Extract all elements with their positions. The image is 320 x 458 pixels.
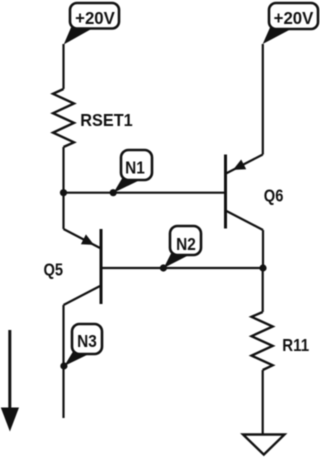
junction: N2/R11 junction dot — [259, 264, 266, 271]
wire: Q5 base to N2 net — [101, 267, 263, 269]
node N2 — [160, 226, 201, 272]
wire: Q5 emitter vertical — [62, 193, 64, 229]
svg-text:+20V: +20V — [274, 8, 314, 28]
svg-text:N3: N3 — [77, 332, 97, 351]
wire: Q5 collector down through N3 — [62, 305, 64, 418]
svg-text:Q5: Q5 — [43, 261, 63, 280]
svg-text:N2: N2 — [176, 235, 196, 254]
wire: +20V to RSET1 top (left branch) — [62, 44, 64, 89]
wire: +20V to Q6 emitter — [262, 44, 264, 155]
power flag +20V (right) — [263, 3, 318, 44]
power flag +20V (left) — [64, 3, 119, 45]
wire: Q6 collector to N2 junction — [262, 230, 264, 268]
svg-text:Q6: Q6 — [264, 186, 284, 205]
svg-text:RSET1: RSET1 — [80, 110, 132, 130]
resistor R11 — [252, 312, 310, 370]
svg-text:+20V: +20V — [75, 8, 115, 28]
svg-text:R11: R11 — [282, 336, 309, 355]
wire: junction to R11 top — [262, 268, 264, 312]
svg-text:N1: N1 — [125, 159, 145, 178]
wire: horizontal N1 net to Q6 base — [64, 192, 226, 194]
transistor Q6 — [226, 155, 284, 231]
ground — [243, 435, 285, 455]
current direction arrow — [1, 330, 19, 432]
node N1 — [110, 150, 152, 196]
wire: R11 bottom to ground — [262, 370, 264, 435]
node N3 — [60, 324, 102, 370]
wire: RSET1 bottom to node N1 junction — [62, 147, 64, 193]
junction: left junction dot — [60, 189, 67, 196]
transistor Q5 — [43, 229, 101, 305]
resistor RSET1 — [53, 89, 133, 147]
